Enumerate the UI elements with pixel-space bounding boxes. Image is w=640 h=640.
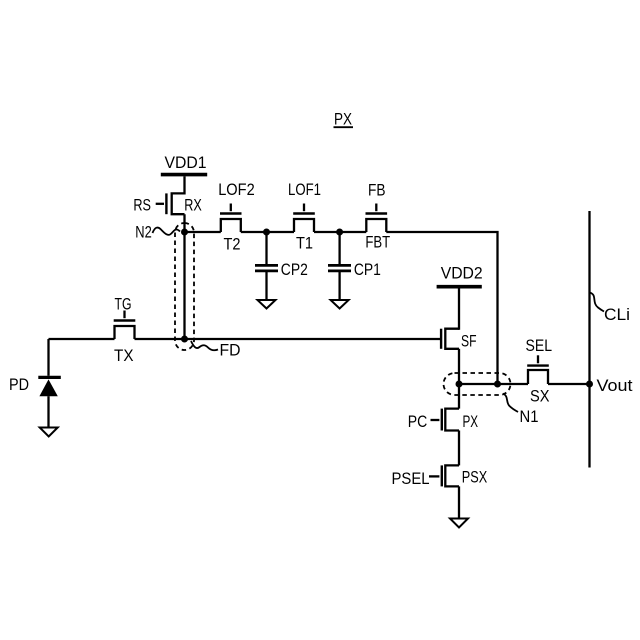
svg-text:N2: N2 xyxy=(135,222,152,241)
label RS xyxy=(133,196,151,215)
node junction CP1 tap xyxy=(336,229,343,236)
svg-text:CLi: CLi xyxy=(604,305,630,324)
wire VDD2 to SF drain xyxy=(458,289,460,330)
title PX xyxy=(334,110,352,129)
transistor T1 xyxy=(293,204,315,233)
svg-text:PSEL: PSEL xyxy=(392,469,430,488)
node N1 xyxy=(456,381,502,388)
transistor RX xyxy=(156,193,185,214)
node FD xyxy=(181,336,188,343)
svg-text:PSX: PSX xyxy=(462,468,487,487)
transistor PSX xyxy=(429,465,459,486)
svg-text:SEL: SEL xyxy=(526,336,553,355)
wire VDD1 to RX drain xyxy=(183,176,185,194)
svg-text:RX: RX xyxy=(184,196,202,215)
photodiode PD xyxy=(38,339,61,377)
svg-text:N1: N1 xyxy=(520,407,539,426)
svg-text:CP1: CP1 xyxy=(354,260,381,279)
wire FBT to N1 (right then down) xyxy=(386,232,497,384)
transistor TX xyxy=(114,311,136,340)
capacitor CP2 xyxy=(255,232,278,300)
squiggle leader N2 xyxy=(153,228,181,235)
svg-text:T2: T2 xyxy=(224,235,241,254)
dashed region N2-FD xyxy=(175,223,194,350)
transistor T2 xyxy=(220,204,242,233)
transistor PX xyxy=(431,409,460,431)
wire SF source to N1 to PX xyxy=(458,349,460,409)
svg-text:TG: TG xyxy=(115,295,132,314)
transistor FBT xyxy=(366,204,388,233)
wire N1 to SX xyxy=(459,383,528,385)
node junction CP2 tap xyxy=(263,229,270,236)
svg-text:SF: SF xyxy=(461,332,477,351)
wire PSX to ground xyxy=(458,486,460,518)
wire PD to TX xyxy=(49,338,115,340)
wire PX to PSX xyxy=(458,431,460,466)
svg-text:PX: PX xyxy=(334,110,352,129)
power VDD1 xyxy=(161,173,207,177)
transistor SX xyxy=(527,355,549,384)
capacitor CP1 xyxy=(328,232,351,300)
power VDD2 xyxy=(437,285,482,289)
svg-text:FB: FB xyxy=(368,181,386,200)
ground PD xyxy=(40,428,58,437)
transistor SF xyxy=(441,329,459,349)
wire RX source to N2 to FD xyxy=(183,214,185,339)
svg-text:VDD2: VDD2 xyxy=(441,263,483,282)
wire T1 to FBT xyxy=(314,231,366,233)
svg-text:LOF1: LOF1 xyxy=(288,180,321,199)
squiggle leader CLi xyxy=(590,293,605,312)
svg-text:PD: PD xyxy=(9,375,29,394)
wire T2 to T1 xyxy=(241,231,294,233)
svg-text:T1: T1 xyxy=(296,234,313,253)
svg-text:RS: RS xyxy=(133,196,151,215)
ground PSX xyxy=(450,519,468,528)
svg-text:VDD1: VDD1 xyxy=(165,153,207,172)
svg-text:CP2: CP2 xyxy=(281,260,308,279)
svg-text:Vout: Vout xyxy=(597,376,633,395)
svg-text:TX: TX xyxy=(114,346,134,365)
dashed region N1 xyxy=(444,373,511,395)
ground CP2 xyxy=(258,300,276,309)
svg-text:SX: SX xyxy=(530,387,550,406)
svg-text:PX: PX xyxy=(463,412,479,431)
svg-text:FBT: FBT xyxy=(365,233,390,252)
bus line CLi xyxy=(588,211,590,468)
wire N2 to T2 xyxy=(185,231,221,233)
node Vout xyxy=(586,381,593,388)
ground CP1 xyxy=(331,300,349,309)
svg-text:FD: FD xyxy=(220,341,241,360)
wire TX to SF gate (FD wire) xyxy=(135,338,441,340)
node N2 xyxy=(181,229,188,236)
svg-text:LOF2: LOF2 xyxy=(218,180,255,199)
squiggle leader FD xyxy=(191,341,218,350)
svg-text:PC: PC xyxy=(408,412,428,431)
wire SX to CLi xyxy=(548,383,590,385)
squiggle leader N1 xyxy=(503,394,518,413)
